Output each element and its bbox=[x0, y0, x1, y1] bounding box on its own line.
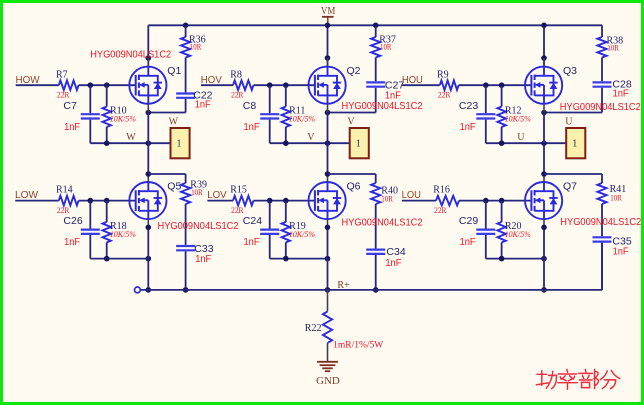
svg-text:C8: C8 bbox=[243, 100, 257, 112]
svg-text:22R: 22R bbox=[438, 90, 451, 100]
svg-text:HOW: HOW bbox=[16, 74, 40, 86]
svg-text:10R: 10R bbox=[190, 42, 202, 52]
svg-text:10K/5%: 10K/5% bbox=[505, 114, 532, 123]
svg-text:1nF: 1nF bbox=[244, 122, 260, 133]
svg-text:W: W bbox=[126, 132, 136, 143]
svg-text:Q2: Q2 bbox=[347, 65, 361, 77]
svg-text:W: W bbox=[169, 117, 179, 128]
svg-text:10K/5%: 10K/5% bbox=[110, 230, 137, 239]
svg-text:HYG009N04LS1C2: HYG009N04LS1C2 bbox=[158, 220, 239, 232]
svg-text:10R: 10R bbox=[380, 42, 392, 52]
svg-text:1nF: 1nF bbox=[460, 122, 476, 133]
svg-text:HYG009N04LS1C2: HYG009N04LS1C2 bbox=[342, 217, 423, 229]
svg-text:Q7: Q7 bbox=[563, 180, 577, 192]
svg-text:C29: C29 bbox=[459, 215, 478, 227]
svg-text:1nF: 1nF bbox=[195, 254, 211, 265]
svg-text:10R: 10R bbox=[607, 43, 619, 53]
svg-text:10R: 10R bbox=[610, 193, 622, 203]
svg-text:U: U bbox=[517, 132, 525, 143]
svg-text:U: U bbox=[565, 117, 573, 128]
svg-text:R8: R8 bbox=[230, 69, 242, 80]
svg-text:V: V bbox=[347, 117, 355, 128]
svg-text:HOV: HOV bbox=[201, 74, 222, 86]
svg-text:HYG009N04LS1C2: HYG009N04LS1C2 bbox=[90, 48, 171, 60]
svg-text:22R: 22R bbox=[231, 205, 244, 215]
svg-text:22R: 22R bbox=[231, 90, 244, 100]
svg-text:22R: 22R bbox=[57, 90, 70, 100]
svg-text:GND: GND bbox=[316, 376, 340, 387]
svg-text:22R: 22R bbox=[434, 205, 447, 215]
svg-text:LOU: LOU bbox=[402, 189, 421, 201]
svg-text:LOV: LOV bbox=[207, 189, 227, 201]
svg-text:22R: 22R bbox=[57, 205, 70, 215]
svg-text:10K/5%: 10K/5% bbox=[289, 230, 316, 239]
svg-text:1: 1 bbox=[572, 139, 577, 150]
svg-text:1: 1 bbox=[356, 139, 361, 150]
svg-text:R9: R9 bbox=[437, 69, 449, 80]
svg-text:LOW: LOW bbox=[15, 189, 38, 201]
svg-text:1nF: 1nF bbox=[195, 100, 211, 111]
svg-text:HOU: HOU bbox=[402, 74, 423, 86]
svg-text:HYG009N04LS1C2: HYG009N04LS1C2 bbox=[560, 101, 641, 113]
svg-text:C23: C23 bbox=[459, 100, 478, 112]
svg-text:10K/5%: 10K/5% bbox=[505, 230, 532, 239]
svg-text:1nF: 1nF bbox=[460, 237, 476, 248]
svg-text:VM: VM bbox=[321, 6, 336, 17]
svg-text:1nF: 1nF bbox=[64, 237, 80, 248]
svg-text:Q1: Q1 bbox=[167, 65, 181, 77]
svg-text:10R: 10R bbox=[191, 187, 203, 197]
svg-text:R14: R14 bbox=[56, 185, 73, 196]
svg-text:Q5: Q5 bbox=[167, 180, 181, 192]
svg-text:C24: C24 bbox=[243, 215, 262, 227]
svg-text:C34: C34 bbox=[386, 246, 405, 258]
svg-text:C26: C26 bbox=[63, 215, 82, 227]
svg-text:1mR/1%/5W: 1mR/1%/5W bbox=[333, 340, 384, 350]
svg-text:10R: 10R bbox=[381, 193, 393, 203]
svg-text:HYG009N04LS1C2: HYG009N04LS1C2 bbox=[560, 216, 641, 228]
svg-text:1nF: 1nF bbox=[385, 258, 401, 269]
svg-text:C7: C7 bbox=[63, 100, 77, 112]
svg-text:1: 1 bbox=[177, 139, 182, 150]
svg-text:R16: R16 bbox=[433, 185, 450, 196]
svg-text:1nF: 1nF bbox=[244, 237, 260, 248]
svg-text:R15: R15 bbox=[230, 185, 247, 196]
svg-text:1nF: 1nF bbox=[64, 122, 80, 133]
svg-text:1nF: 1nF bbox=[613, 246, 629, 257]
svg-text:R+: R+ bbox=[337, 280, 350, 291]
svg-text:1nF: 1nF bbox=[613, 89, 629, 100]
svg-text:Q3: Q3 bbox=[563, 65, 577, 77]
svg-text:HYG009N04LS1C2: HYG009N04LS1C2 bbox=[342, 100, 423, 112]
svg-text:R22: R22 bbox=[305, 323, 322, 334]
svg-text:Q6: Q6 bbox=[347, 180, 361, 192]
svg-text:V: V bbox=[307, 132, 315, 143]
svg-text:10K/5%: 10K/5% bbox=[110, 114, 137, 123]
svg-text:10K/5%: 10K/5% bbox=[289, 114, 316, 123]
svg-text:R7: R7 bbox=[56, 69, 68, 80]
